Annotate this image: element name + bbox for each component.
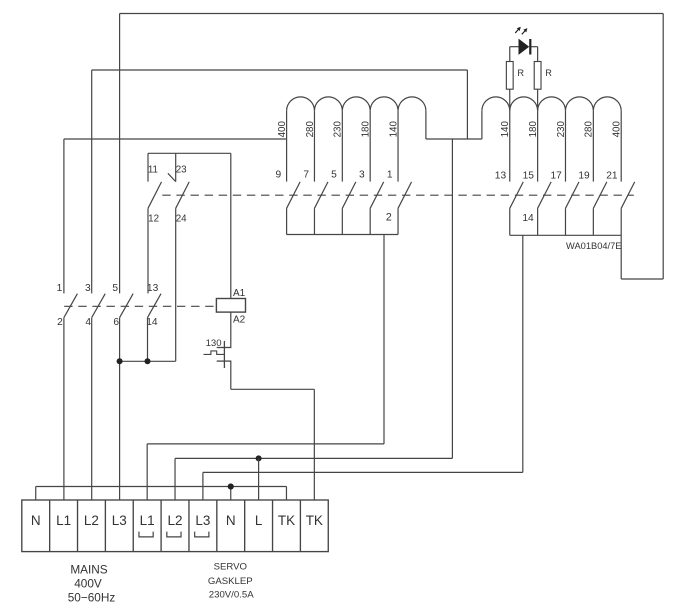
- svg-text:A1: A1: [233, 288, 246, 299]
- svg-text:SERVO: SERVO: [214, 562, 247, 573]
- svg-text:23: 23: [176, 165, 187, 176]
- svg-text:L: L: [255, 513, 263, 528]
- svg-text:R: R: [517, 68, 524, 78]
- svg-text:GASKLEP: GASKLEP: [208, 576, 253, 587]
- svg-text:280: 280: [584, 120, 595, 137]
- svg-text:400: 400: [277, 120, 288, 137]
- svg-text:5: 5: [112, 283, 118, 294]
- svg-text:11: 11: [148, 165, 158, 176]
- svg-text:A2: A2: [233, 315, 246, 326]
- svg-text:400V: 400V: [74, 576, 102, 590]
- svg-text:5: 5: [331, 170, 337, 181]
- svg-text:280: 280: [305, 120, 316, 137]
- svg-text:140: 140: [388, 120, 399, 137]
- svg-text:180: 180: [528, 120, 539, 137]
- svg-text:3: 3: [85, 283, 91, 294]
- svg-text:N: N: [31, 513, 41, 528]
- svg-text:L2: L2: [168, 513, 183, 528]
- svg-text:400: 400: [612, 120, 623, 137]
- svg-text:230V/0.5A: 230V/0.5A: [209, 589, 254, 600]
- svg-text:N: N: [226, 513, 236, 528]
- svg-text:17: 17: [551, 171, 563, 182]
- svg-text:140: 140: [500, 120, 511, 137]
- svg-text:TK: TK: [278, 513, 295, 528]
- svg-text:L1: L1: [140, 513, 155, 528]
- svg-text:L3: L3: [195, 513, 210, 528]
- svg-text:21: 21: [606, 171, 618, 182]
- svg-text:180: 180: [361, 120, 372, 137]
- svg-text:2: 2: [386, 212, 392, 224]
- svg-text:1: 1: [387, 170, 393, 181]
- svg-text:2: 2: [57, 317, 63, 328]
- svg-text:13: 13: [495, 171, 507, 182]
- svg-text:R: R: [545, 68, 552, 78]
- svg-text:9: 9: [275, 170, 281, 181]
- svg-text:L1: L1: [56, 513, 71, 528]
- svg-text:WA01B04/7E: WA01B04/7E: [566, 241, 621, 251]
- svg-text:4: 4: [85, 317, 91, 328]
- svg-text:19: 19: [578, 171, 590, 182]
- svg-text:L3: L3: [112, 513, 127, 528]
- svg-text:24: 24: [176, 214, 187, 225]
- svg-text:3: 3: [359, 170, 365, 181]
- svg-text:15: 15: [523, 171, 535, 182]
- svg-text:12: 12: [148, 214, 159, 225]
- svg-text:TK: TK: [306, 513, 323, 528]
- svg-text:130: 130: [206, 338, 222, 349]
- svg-text:1: 1: [57, 283, 63, 294]
- svg-text:MAINS: MAINS: [70, 563, 107, 577]
- svg-text:13: 13: [147, 283, 159, 294]
- svg-text:6: 6: [113, 317, 119, 328]
- svg-text:L2: L2: [84, 513, 99, 528]
- svg-text:230: 230: [556, 120, 567, 137]
- svg-text:230: 230: [333, 120, 344, 137]
- svg-text:14: 14: [522, 213, 534, 224]
- svg-text:50−60Hz: 50−60Hz: [68, 591, 116, 605]
- svg-text:7: 7: [303, 170, 309, 181]
